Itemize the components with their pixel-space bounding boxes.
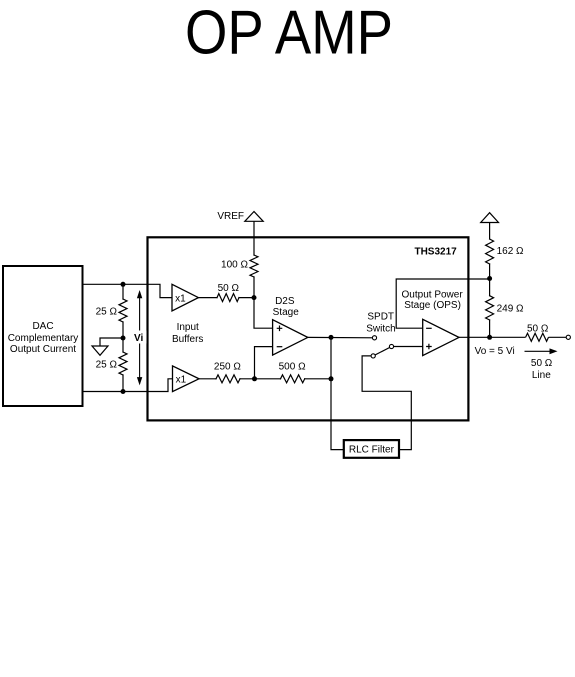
svg-text:D2S: D2S xyxy=(275,296,295,307)
svg-text:Complementary: Complementary xyxy=(8,333,79,344)
svg-text:50 Ω: 50 Ω xyxy=(218,283,240,294)
svg-text:Stage (OPS): Stage (OPS) xyxy=(404,300,461,311)
svg-text:25 Ω: 25 Ω xyxy=(96,360,118,371)
svg-text:Input: Input xyxy=(177,322,199,333)
svg-text:RLC Filter: RLC Filter xyxy=(349,445,395,456)
svg-text:Stage: Stage xyxy=(273,307,300,318)
svg-text:162 Ω: 162 Ω xyxy=(497,246,524,257)
svg-text:Output Power: Output Power xyxy=(402,290,464,301)
svg-text:x1: x1 xyxy=(176,375,187,386)
svg-text:DAC: DAC xyxy=(32,321,53,332)
svg-text:Vo = 5 Vi: Vo = 5 Vi xyxy=(475,346,515,357)
svg-text:THS3217: THS3217 xyxy=(414,246,457,257)
svg-text:250 Ω: 250 Ω xyxy=(214,362,241,373)
svg-text:SPDT: SPDT xyxy=(367,312,394,323)
svg-text:50 Ω: 50 Ω xyxy=(527,323,549,334)
svg-text:Switch: Switch xyxy=(366,323,395,334)
svg-text:249 Ω: 249 Ω xyxy=(497,304,524,315)
svg-text:OP AMP: OP AMP xyxy=(185,0,393,68)
svg-text:100 Ω: 100 Ω xyxy=(221,260,248,271)
svg-text:Output Current: Output Current xyxy=(10,344,76,355)
svg-text:Buffers: Buffers xyxy=(172,334,204,345)
svg-text:Vi: Vi xyxy=(134,333,143,344)
svg-text:25 Ω: 25 Ω xyxy=(96,306,118,317)
svg-text:500 Ω: 500 Ω xyxy=(279,362,306,373)
svg-text:Line: Line xyxy=(532,370,551,381)
svg-text:50 Ω: 50 Ω xyxy=(531,358,553,369)
svg-text:VREF: VREF xyxy=(217,211,244,222)
svg-text:x1: x1 xyxy=(175,293,186,304)
